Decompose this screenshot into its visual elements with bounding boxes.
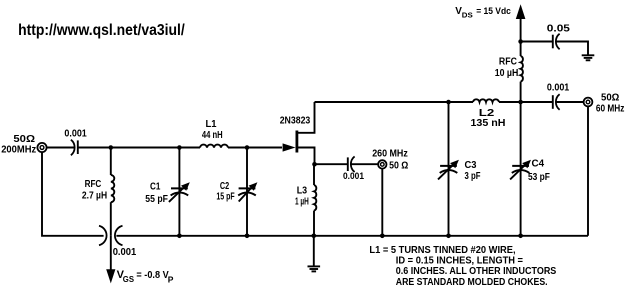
label VGS = -0.8 VP (117, 269, 174, 285)
svg-text:0.001: 0.001 (343, 171, 365, 182)
wire cap to 260MHz connector (351, 163, 378, 165)
svg-text:50Ω: 50Ω (601, 93, 619, 104)
capacitor 0.001 output coupling 260MHz (348, 156, 355, 172)
inductor L3 1uH (314, 164, 316, 236)
RFC choke 10uH (521, 42, 523, 103)
svg-text:60 MHz: 60 MHz (596, 104, 625, 115)
VGS bias arrow (106, 236, 115, 284)
svg-text:P: P (168, 275, 174, 285)
svg-text:C4: C4 (532, 159, 545, 170)
svg-text:0.6 INCHES. ALL OTHER INDUCTO: 0.6 INCHES. ALL OTHER INDUCTORS (396, 266, 557, 277)
svg-text:ARE STANDARD MOLDED CHOKES.: ARE STANDARD MOLDED CHOKES. (396, 277, 548, 288)
connector 50ohm 60MHz (584, 98, 593, 107)
svg-text:0.001: 0.001 (113, 247, 137, 258)
label C4 53pF (528, 159, 550, 184)
wire drain rail left segment (315, 101, 474, 103)
node C4 bottom (518, 234, 523, 239)
label RFC 10uH (495, 57, 519, 79)
svg-text:2N3823: 2N3823 (280, 116, 311, 127)
svg-text:44 nH: 44 nH (202, 130, 223, 141)
wire drain rail right segment (499, 101, 553, 103)
wire gate row (78, 147, 200, 149)
input connector J1 50ohm 200MHz (37, 143, 46, 152)
label 50ohm 60MHz (596, 93, 625, 115)
capacitor C3 3pF variable (438, 102, 459, 236)
node RFC top (109, 145, 114, 150)
svg-text:0.001: 0.001 (64, 128, 87, 139)
node C1 top (177, 145, 182, 150)
capacitor C1 55pF variable (169, 148, 190, 236)
label C1 55pF (145, 182, 168, 206)
svg-text:260 MHz: 260 MHz (372, 149, 408, 160)
svg-text:L3: L3 (297, 185, 308, 196)
svg-text:C2: C2 (220, 181, 229, 192)
svg-text:53 pF: 53 pF (528, 172, 550, 183)
wire input connector to C-in (47, 147, 75, 149)
svg-text:135 nH: 135 nH (471, 118, 506, 129)
svg-text:C1: C1 (150, 182, 161, 193)
svg-text:3 pF: 3 pF (465, 171, 481, 182)
svg-text:http://www.qsl.net/va3iul/: http://www.qsl.net/va3iul/ (18, 22, 185, 39)
svg-text:15 pF: 15 pF (216, 192, 234, 203)
transistor Q1 2N3823 JFET (283, 102, 315, 164)
svg-text:55 pF: 55 pF (145, 194, 168, 205)
wire left vertical from input connector (42, 152, 104, 236)
feedthrough capacitor 0.001 (99, 226, 123, 245)
svg-text:GS: GS (123, 274, 135, 284)
label L2 135nH (471, 108, 506, 129)
wire cap to 60MHz connector (556, 101, 584, 103)
label C2 15pF (216, 181, 234, 203)
node C2 bottom (245, 234, 250, 239)
label L3 1uH (295, 185, 309, 207)
svg-text:RFC: RFC (85, 179, 102, 190)
svg-text:ID = 0.15 INCHES, LENGTH =: ID = 0.15 INCHES, LENGTH = (396, 256, 523, 267)
svg-text:L1: L1 (206, 119, 217, 130)
svg-text:50 Ω: 50 Ω (389, 160, 408, 171)
label 260MHz 50ohm (372, 149, 408, 172)
connector 260MHz 50ohm (378, 160, 386, 168)
inductor L1 44nH (200, 145, 228, 148)
wire 0.05 cap to ground (556, 42, 588, 55)
node C3 bottom (446, 234, 451, 239)
svg-text:RFC: RFC (499, 57, 517, 68)
wire source row to output cap (315, 163, 348, 165)
VDS supply arrow (516, 4, 526, 41)
capacitor C4 53pF variable (510, 102, 531, 236)
wire 60MHz connector to bottom rail (587, 106, 589, 235)
capacitor 0.001 input coupling (71, 140, 78, 156)
svg-text:DS: DS (462, 10, 473, 19)
label L1 44nH (202, 119, 223, 141)
svg-text:2.7 µH: 2.7 µH (82, 191, 107, 202)
label 50ohm 200MHz input (1, 134, 36, 155)
inductor L2 135nH (473, 99, 499, 102)
node 260MHz return (380, 234, 385, 239)
svg-text:C3: C3 (465, 160, 477, 171)
RFC choke 2.7uH (111, 148, 115, 236)
node C3 top (446, 100, 451, 105)
label RFC 2.7uH (82, 179, 107, 202)
svg-text:1 µH: 1 µH (295, 197, 309, 208)
svg-text:10 µH: 10 µH (495, 68, 519, 79)
svg-text:= 15 Vdc: = 15 Vdc (476, 6, 511, 17)
svg-text:200MHz: 200MHz (1, 144, 36, 155)
ground symbol top right (582, 55, 595, 60)
node RFC/C4 top (518, 100, 523, 105)
wire bottom rail (116, 235, 588, 237)
ground symbol main (308, 236, 321, 272)
node C2 top (245, 145, 250, 150)
wire 260MHz connector to bottom rail (381, 169, 383, 236)
svg-text:L1 = 5 TURNS TINNED #20 WIRE: L1 = 5 TURNS TINNED #20 WIRE, (369, 245, 515, 256)
note text L1 construction (369, 245, 556, 288)
wire gate row right (228, 147, 282, 149)
node source junction (312, 162, 317, 167)
capacitor C2 15pF variable (238, 148, 257, 236)
node L3 bottom ground (312, 234, 317, 239)
label VDS = 15 Vdc (455, 6, 511, 20)
node VDS tee (518, 39, 523, 44)
wire VDS tee to 0.05 cap (521, 41, 553, 43)
node C1 bottom (177, 234, 182, 239)
svg-text:= -0.8 V: = -0.8 V (136, 270, 169, 281)
label C3 3pF (465, 160, 481, 182)
capacitor 0.001 output 60MHz (553, 94, 560, 110)
capacitor 0.05 bypass (553, 34, 560, 50)
svg-text:0.001: 0.001 (547, 83, 570, 94)
svg-text:0.05: 0.05 (547, 23, 570, 34)
